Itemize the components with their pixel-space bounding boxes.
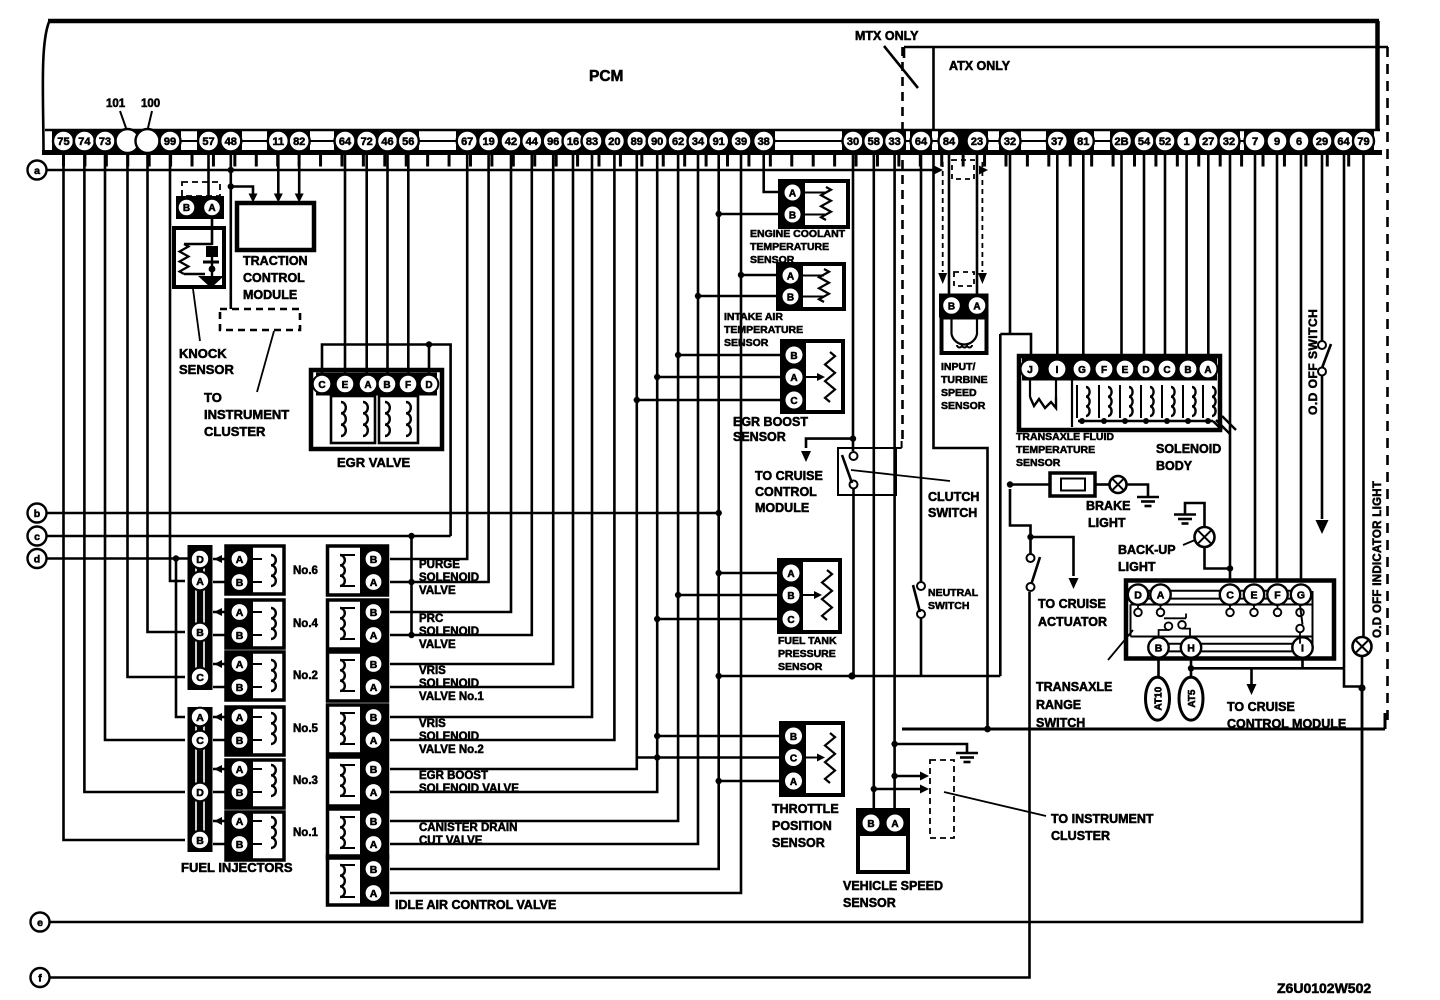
svg-text:SENSOR: SENSOR	[724, 337, 769, 349]
PCM pin 11	[268, 131, 289, 152]
wire branch to fuel tank pressure sensor A	[719, 572, 779, 575]
svg-text:VALVE: VALVE	[419, 585, 456, 597]
svg-text:TEMPERATURE: TEMPERATURE	[1016, 444, 1095, 456]
svg-text:58: 58	[868, 136, 880, 148]
PCM pin 58	[863, 131, 884, 152]
svg-text:F: F	[1274, 590, 1281, 602]
wire d-bus branch to injector A	[176, 559, 185, 718]
PCM pin 32	[1000, 131, 1021, 152]
svg-text:64: 64	[1337, 136, 1350, 148]
svg-text:EGR VALVE: EGR VALVE	[337, 455, 411, 470]
PCM pin 79	[1353, 131, 1374, 152]
PCM connector pin row	[42, 130, 1382, 167]
svg-text:SWITCH: SWITCH	[928, 600, 969, 612]
PCM pin 37	[1047, 131, 1068, 152]
wire branch to fuel tank pressure sensor B	[678, 594, 779, 597]
PCM pin 56	[398, 131, 419, 152]
svg-text:SOLENOID: SOLENOID	[419, 731, 479, 743]
svg-text:100: 100	[141, 98, 160, 110]
node d terminal	[28, 549, 47, 568]
svg-text:TRACTION: TRACTION	[243, 254, 308, 268]
svg-text:CLUTCH: CLUTCH	[928, 490, 979, 504]
brake light fuse box	[1050, 473, 1109, 496]
svg-text:CONTROL: CONTROL	[243, 271, 305, 285]
svg-text:AT5: AT5	[1187, 689, 1198, 708]
svg-text:A: A	[789, 188, 796, 199]
svg-text:LIGHT: LIGHT	[1088, 516, 1126, 530]
svg-text:B: B	[236, 577, 244, 589]
PCM pin 9	[1267, 131, 1288, 152]
svg-text:SENSOR: SENSOR	[941, 400, 986, 412]
svg-text:INSTRUMENT: INSTRUMENT	[204, 407, 289, 422]
fuel tank pressure sensor	[778, 560, 840, 673]
PCM pin blank	[136, 129, 160, 153]
svg-text:42: 42	[505, 136, 517, 148]
wire branch to EGR boost sensor B	[678, 354, 782, 357]
VRIS solenoid valve No.1	[328, 652, 485, 703]
svg-text:A: A	[370, 735, 378, 747]
svg-text:SENSOR: SENSOR	[179, 362, 235, 377]
PCM pin 32	[1219, 131, 1240, 152]
svg-text:KNOCK: KNOCK	[179, 346, 227, 361]
knock sensor label	[179, 289, 235, 377]
wire pin 56 to EGR valve F	[407, 153, 410, 374]
vehicle speed sensor	[843, 810, 943, 910]
wire pin 7 to range switch E	[1254, 153, 1257, 581]
node a terminal	[28, 161, 47, 180]
input turbine speed sensor dashed shield	[938, 160, 987, 286]
svg-text:BACK-UP: BACK-UP	[1118, 543, 1176, 557]
PCM pin 44	[521, 131, 542, 152]
svg-text:ATX ONLY: ATX ONLY	[949, 59, 1011, 73]
wire pin 74 to injector D	[84, 153, 185, 792]
svg-text:B: B	[196, 627, 204, 639]
svg-text:96: 96	[547, 136, 559, 148]
pin row group link line	[55, 140, 1372, 142]
svg-text:b: b	[34, 508, 40, 520]
svg-text:F: F	[405, 380, 411, 391]
svg-text:33: 33	[888, 136, 900, 148]
wire pin to solenoid body I	[1056, 153, 1059, 357]
svg-text:2B: 2B	[1114, 136, 1128, 148]
svg-text:52: 52	[1159, 136, 1171, 148]
PCM pin 1	[1176, 131, 1197, 152]
wire pin to solenoid body G	[1082, 153, 1085, 357]
svg-text:No.1: No.1	[293, 827, 319, 839]
svg-text:B: B	[370, 607, 378, 619]
svg-text:64: 64	[915, 136, 928, 148]
fuel injector No.2	[213, 652, 318, 700]
wire to ground near VSS	[895, 744, 978, 762]
wire pin 44 to PRC solenoid valve A	[390, 153, 532, 635]
svg-text:B: B	[948, 301, 955, 312]
svg-text:30: 30	[847, 136, 859, 148]
fuel injectors label	[181, 860, 293, 875]
svg-text:A: A	[370, 839, 378, 851]
svg-text:A: A	[196, 576, 204, 588]
svg-text:A: A	[790, 373, 797, 384]
svg-text:1: 1	[1184, 136, 1190, 148]
svg-text:SENSOR: SENSOR	[778, 661, 823, 673]
wire pin 39 to idle air control valve A	[390, 153, 744, 893]
svg-text:CLUSTER: CLUSTER	[1051, 829, 1110, 843]
wire branch to throttle position sensor B	[654, 733, 781, 739]
PCM pin 62	[668, 131, 689, 152]
PCM pin 16	[563, 131, 584, 152]
svg-text:32: 32	[1004, 136, 1016, 148]
PCM pin 52	[1155, 131, 1176, 152]
svg-text:A: A	[236, 816, 244, 828]
fuel injector No.1	[213, 812, 319, 860]
PCM pin 81	[1073, 131, 1094, 152]
PCM pin 82	[289, 131, 310, 152]
svg-text:B: B	[370, 864, 378, 876]
svg-text:C: C	[196, 735, 204, 747]
svg-text:75: 75	[57, 136, 69, 148]
svg-text:B: B	[1184, 365, 1191, 376]
wire ground bus y676	[719, 672, 1001, 679]
neutral switch	[913, 582, 979, 676]
PCM pin 39	[731, 131, 752, 152]
svg-text:VALVE No.2: VALVE No.2	[419, 744, 484, 756]
svg-text:a: a	[34, 165, 40, 177]
svg-text:TO CRUISE: TO CRUISE	[1227, 700, 1295, 714]
svg-text:9: 9	[1274, 136, 1280, 148]
svg-text:d: d	[34, 554, 40, 566]
svg-text:B: B	[867, 819, 874, 830]
svg-text:A: A	[973, 301, 980, 312]
svg-text:83: 83	[586, 136, 598, 148]
svg-text:B: B	[789, 210, 796, 221]
wire pin 20 to VRIS2 solenoid valve A	[390, 153, 614, 740]
svg-text:PRC: PRC	[419, 613, 443, 625]
svg-text:57: 57	[202, 136, 214, 148]
svg-text:A: A	[196, 712, 204, 724]
svg-text:A: A	[208, 203, 215, 214]
svg-text:101: 101	[106, 98, 126, 110]
svg-text:B: B	[370, 554, 378, 566]
node c terminal	[28, 527, 47, 546]
idle air control valve	[328, 856, 557, 912]
wire pin 83 to VRIS2 solenoid valve B	[390, 153, 592, 717]
svg-text:A: A	[370, 888, 378, 900]
PCM pin 27	[1198, 131, 1219, 152]
svg-text:27: 27	[1202, 136, 1214, 148]
svg-text:NEUTRAL: NEUTRAL	[928, 587, 979, 599]
svg-text:VALVE No.1: VALVE No.1	[419, 691, 484, 703]
svg-text:B: B	[236, 735, 244, 747]
svg-text:A: A	[364, 380, 371, 391]
wire branch to intake air temp sensor A	[741, 274, 778, 277]
wire pin 82 to traction control module	[295, 153, 304, 203]
wire c-bus riser to solenoid A pins	[408, 533, 414, 638]
wire pin 33 to vehicle speed sensor A	[891, 153, 897, 811]
svg-text:SOLENOID: SOLENOID	[419, 678, 479, 690]
wire pin blank2 to injector B	[148, 153, 186, 632]
svg-text:B: B	[236, 787, 244, 799]
fuel injector connector block 2	[188, 707, 213, 852]
PCM pin 91	[708, 131, 729, 152]
svg-text:B: B	[1155, 642, 1163, 654]
wire pin 30 to clutch switch	[850, 153, 856, 451]
wire pin 46 to EGR valve B	[386, 153, 389, 374]
brake light bulb	[1086, 476, 1159, 530]
svg-text:No.4: No.4	[293, 618, 319, 630]
svg-text:A: A	[236, 554, 244, 566]
wire bus d	[47, 555, 192, 561]
svg-text:A: A	[370, 682, 378, 694]
svg-text:CONTROL: CONTROL	[755, 485, 817, 499]
wire pin 38 to engine coolant temp sensor A	[764, 153, 780, 192]
svg-text:TRANSAXLE: TRANSAXLE	[1036, 680, 1112, 694]
svg-text:6: 6	[1296, 136, 1302, 148]
svg-text:D: D	[1142, 365, 1149, 376]
diagram code Z6U0102W502	[1277, 980, 1371, 996]
svg-text:f: f	[38, 973, 42, 985]
PCM pin 57	[198, 131, 219, 152]
wire pin 72 to EGR valve A	[365, 153, 368, 374]
PCM pin 30	[843, 131, 864, 152]
svg-text:EGR BOOST: EGR BOOST	[733, 415, 808, 429]
svg-text:A: A	[236, 712, 244, 724]
svg-text:C: C	[787, 615, 794, 626]
to cruise control module arrow	[1227, 668, 1346, 731]
PCM pin 6	[1289, 131, 1310, 152]
svg-text:ACTUATOR: ACTUATOR	[1038, 615, 1107, 629]
svg-text:MODULE: MODULE	[243, 288, 297, 302]
wire bus e	[50, 688, 1363, 922]
fuel injector No.6	[213, 546, 318, 594]
svg-text:A: A	[891, 819, 898, 830]
svg-text:SWITCH: SWITCH	[928, 506, 977, 520]
PCM pin 34	[688, 131, 709, 152]
svg-text:73: 73	[99, 136, 111, 148]
svg-text:PCM: PCM	[589, 68, 623, 85]
EGR valve box	[311, 370, 442, 470]
PCM pin 72	[356, 131, 377, 152]
svg-text:VALVE: VALVE	[419, 639, 456, 651]
wire c-bus to EGR valve C and D	[322, 341, 451, 536]
VRIS solenoid valve No.2	[328, 705, 484, 756]
svg-text:C: C	[1226, 590, 1234, 602]
svg-text:82: 82	[293, 136, 305, 148]
PCM pin 46	[377, 131, 398, 152]
wire pin 62 to canister drain cut valve B	[390, 153, 681, 821]
svg-text:No.5: No.5	[293, 723, 319, 735]
PCM pin 42	[501, 131, 522, 152]
wire pin 42 to range switch C	[1229, 153, 1232, 581]
wire pin 99 to injector A	[170, 153, 185, 581]
PCM pin 64	[1333, 131, 1354, 152]
svg-text:74: 74	[78, 136, 91, 148]
PCM pin 19	[478, 131, 499, 152]
svg-text:VRIS: VRIS	[419, 718, 446, 730]
PCM pin 48	[220, 131, 241, 152]
PCM pin 83	[582, 131, 603, 152]
svg-text:72: 72	[361, 136, 373, 148]
svg-text:TEMPERATURE: TEMPERATURE	[750, 241, 829, 253]
svg-text:F: F	[1101, 365, 1107, 376]
svg-text:B: B	[790, 732, 797, 743]
svg-text:No.2: No.2	[293, 670, 318, 682]
PCM pin blank	[116, 129, 140, 153]
svg-text:AT10: AT10	[1154, 686, 1165, 710]
svg-text:67: 67	[461, 136, 473, 148]
PCM module box	[43, 21, 1379, 152]
svg-text:MTX ONLY: MTX ONLY	[855, 29, 919, 43]
svg-text:48: 48	[225, 136, 237, 148]
solenoid body	[1016, 356, 1236, 473]
EGR boost solenoid valve	[328, 757, 520, 806]
wire pin to solenoid body D	[1143, 153, 1146, 357]
svg-text:C: C	[1163, 365, 1170, 376]
wire to cruise control module	[755, 439, 853, 515]
PCM pin 23	[967, 131, 988, 152]
svg-text:56: 56	[402, 136, 414, 148]
svg-text:ENGINE COOLANT: ENGINE COOLANT	[750, 228, 846, 240]
svg-text:90: 90	[651, 136, 663, 148]
svg-text:BODY: BODY	[1156, 459, 1193, 473]
wire pin 32 chain to brake light and cruise switch	[1007, 481, 1050, 676]
svg-text:TURBINE: TURBINE	[941, 374, 988, 386]
PCM pin 99	[160, 131, 181, 152]
wire pin 48 to instrument cluster	[228, 153, 234, 309]
svg-text:39: 39	[735, 136, 747, 148]
svg-text:38: 38	[758, 136, 770, 148]
svg-text:CUT VALVE: CUT VALVE	[419, 835, 483, 847]
node b terminal	[28, 504, 47, 523]
PCM pin 38	[753, 131, 774, 152]
svg-text:I: I	[1056, 365, 1059, 376]
intake air temperature sensor	[724, 264, 844, 349]
svg-text:46: 46	[381, 136, 393, 148]
svg-text:11: 11	[272, 136, 284, 148]
wire pin blank1 to injector C	[128, 153, 186, 677]
wire to cruise actuator switch	[1010, 485, 1107, 630]
PCM pin 67	[457, 131, 478, 152]
wire branch to EGR boost sensor A	[657, 376, 782, 379]
fuel injector No.3	[213, 760, 318, 808]
svg-text:CLUSTER: CLUSTER	[204, 424, 266, 439]
svg-text:54: 54	[1138, 136, 1151, 148]
wire pin to solenoid body B	[1185, 153, 1188, 357]
ATX ONLY box	[902, 47, 1388, 729]
svg-text:C: C	[196, 672, 204, 684]
svg-text:H: H	[1187, 642, 1195, 654]
svg-text:D: D	[196, 554, 204, 566]
svg-text:TO CRUISE: TO CRUISE	[1038, 597, 1106, 611]
wires to instrument cluster connector	[874, 760, 1154, 843]
wire pin to solenoid body E	[1120, 153, 1123, 357]
svg-text:PRESSURE: PRESSURE	[778, 648, 836, 660]
svg-text:POSITION: POSITION	[772, 819, 832, 833]
wire branch to EGR boost sensor C	[637, 399, 782, 402]
wire branch to throttle position sensor A	[716, 778, 782, 784]
svg-text:SENSOR: SENSOR	[733, 430, 786, 444]
svg-text:SPEED: SPEED	[941, 387, 977, 399]
svg-text:CANISTER DRAIN: CANISTER DRAIN	[419, 822, 517, 834]
svg-text:SENSOR: SENSOR	[772, 836, 825, 850]
svg-text:B: B	[370, 816, 378, 828]
PCM pin 84	[939, 131, 960, 152]
svg-text:INPUT/: INPUT/	[941, 361, 976, 373]
svg-text:TO: TO	[204, 390, 222, 405]
svg-text:B: B	[196, 835, 204, 847]
AT10 connector oval	[1146, 658, 1170, 720]
fuel injector No.5	[213, 707, 319, 755]
input turbine speed sensor	[939, 294, 989, 413]
svg-text:INTAKE AIR: INTAKE AIR	[724, 311, 783, 323]
wire pin 42 to PRC solenoid valve B	[390, 153, 511, 612]
wire pin 64 to EGR valve E	[344, 153, 347, 374]
wire pin 90 to EGR boost solenoid valve A	[390, 153, 660, 792]
wire pin 16 to VRIS1 solenoid valve A	[390, 153, 573, 687]
svg-text:E: E	[1250, 590, 1257, 602]
svg-text:B: B	[370, 712, 378, 724]
svg-text:62: 62	[672, 136, 684, 148]
wire pin 75 to injector B	[64, 153, 186, 840]
wire pin 73 to injector C	[105, 153, 185, 740]
knock sensor connector B A	[176, 196, 224, 219]
svg-text:B: B	[370, 764, 378, 776]
svg-text:23: 23	[971, 136, 983, 148]
svg-text:B: B	[370, 659, 378, 671]
svg-text:E: E	[1122, 365, 1129, 376]
svg-text:16: 16	[567, 136, 579, 148]
svg-text:G: G	[1297, 590, 1305, 602]
transaxle range switch	[1036, 581, 1334, 731]
svg-text:A: A	[236, 764, 244, 776]
knock sensor dashed connector outline	[182, 182, 220, 196]
svg-text:A: A	[370, 630, 378, 642]
svg-text:91: 91	[713, 136, 725, 148]
svg-text:A: A	[236, 607, 244, 619]
wire pin 19 to purge solenoid valve A	[390, 153, 489, 582]
svg-text:B: B	[183, 203, 190, 214]
svg-text:No.3: No.3	[293, 775, 318, 787]
PCM pin 90	[647, 131, 668, 152]
svg-text:20: 20	[608, 136, 620, 148]
wire branch to intake air temp sensor B	[698, 295, 778, 298]
svg-text:SOLENOID: SOLENOID	[1156, 442, 1221, 456]
clutch switch	[838, 441, 979, 676]
svg-text:BRAKE: BRAKE	[1086, 499, 1130, 513]
pin 101 label	[106, 98, 126, 128]
svg-text:G: G	[1078, 365, 1086, 376]
wire pin 29 to OD off switch	[1306, 153, 1331, 534]
EGR boost sensor	[733, 341, 843, 444]
AT5 connector oval	[1179, 658, 1203, 720]
wire pin to solenoid body C	[1164, 153, 1167, 357]
svg-text:E: E	[342, 380, 349, 391]
svg-text:89: 89	[631, 136, 643, 148]
MTX ONLY label and boundary	[855, 29, 919, 441]
svg-text:B: B	[787, 292, 794, 303]
wire branch to throttle position sensor C	[637, 756, 781, 759]
svg-text:FUEL INJECTORS: FUEL INJECTORS	[181, 860, 293, 875]
wire pin 67 to purge solenoid valve B	[390, 153, 467, 559]
svg-text:SENSOR: SENSOR	[843, 896, 896, 910]
svg-text:SENSOR: SENSOR	[1016, 457, 1061, 469]
PCM pin 89	[626, 131, 647, 152]
wire pin 6 to range switch G	[1300, 153, 1303, 581]
svg-text:FUEL TANK: FUEL TANK	[778, 635, 837, 647]
wire pin 64 to neutral switch	[920, 153, 923, 582]
svg-text:44: 44	[526, 136, 539, 148]
PCM pin 20	[604, 131, 625, 152]
svg-text:B: B	[383, 380, 390, 391]
pin 100 label	[141, 98, 160, 128]
